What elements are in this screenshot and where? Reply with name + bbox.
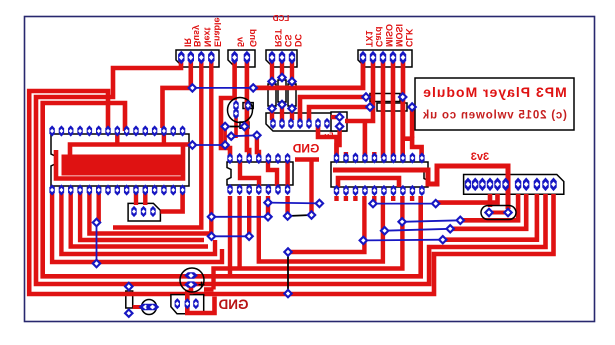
svg-text:MISO: MISO [384,24,394,47]
svg-text:TX1: TX1 [364,30,374,47]
svg-text:5v: 5v [324,132,333,141]
svg-text:Gnd: Gnd [248,29,258,47]
svg-text:LCD: LCD [273,14,290,23]
svg-text:5v: 5v [236,37,246,47]
svg-text:Enable: Enable [212,17,222,47]
svg-text:MOSI: MOSI [394,24,404,47]
svg-text:3v3: 3v3 [471,151,489,163]
svg-text:GND: GND [218,297,248,312]
svg-text:IR: IR [182,37,192,47]
svg-text:GND: GND [292,142,319,156]
svg-text:MP3 Player Module: MP3 Player Module [422,84,567,100]
svg-text:CS: CS [283,34,293,47]
svg-text:Next: Next [202,27,212,47]
svg-text:Card: Card [374,26,384,47]
svg-text:DC: DC [293,34,303,47]
svg-text:(c) 2015 vwlowen co uk: (c) 2015 vwlowen co uk [422,110,567,122]
svg-text:CLK: CLK [404,28,414,47]
svg-text:RST: RST [273,28,283,47]
svg-text:Busy: Busy [192,25,202,47]
